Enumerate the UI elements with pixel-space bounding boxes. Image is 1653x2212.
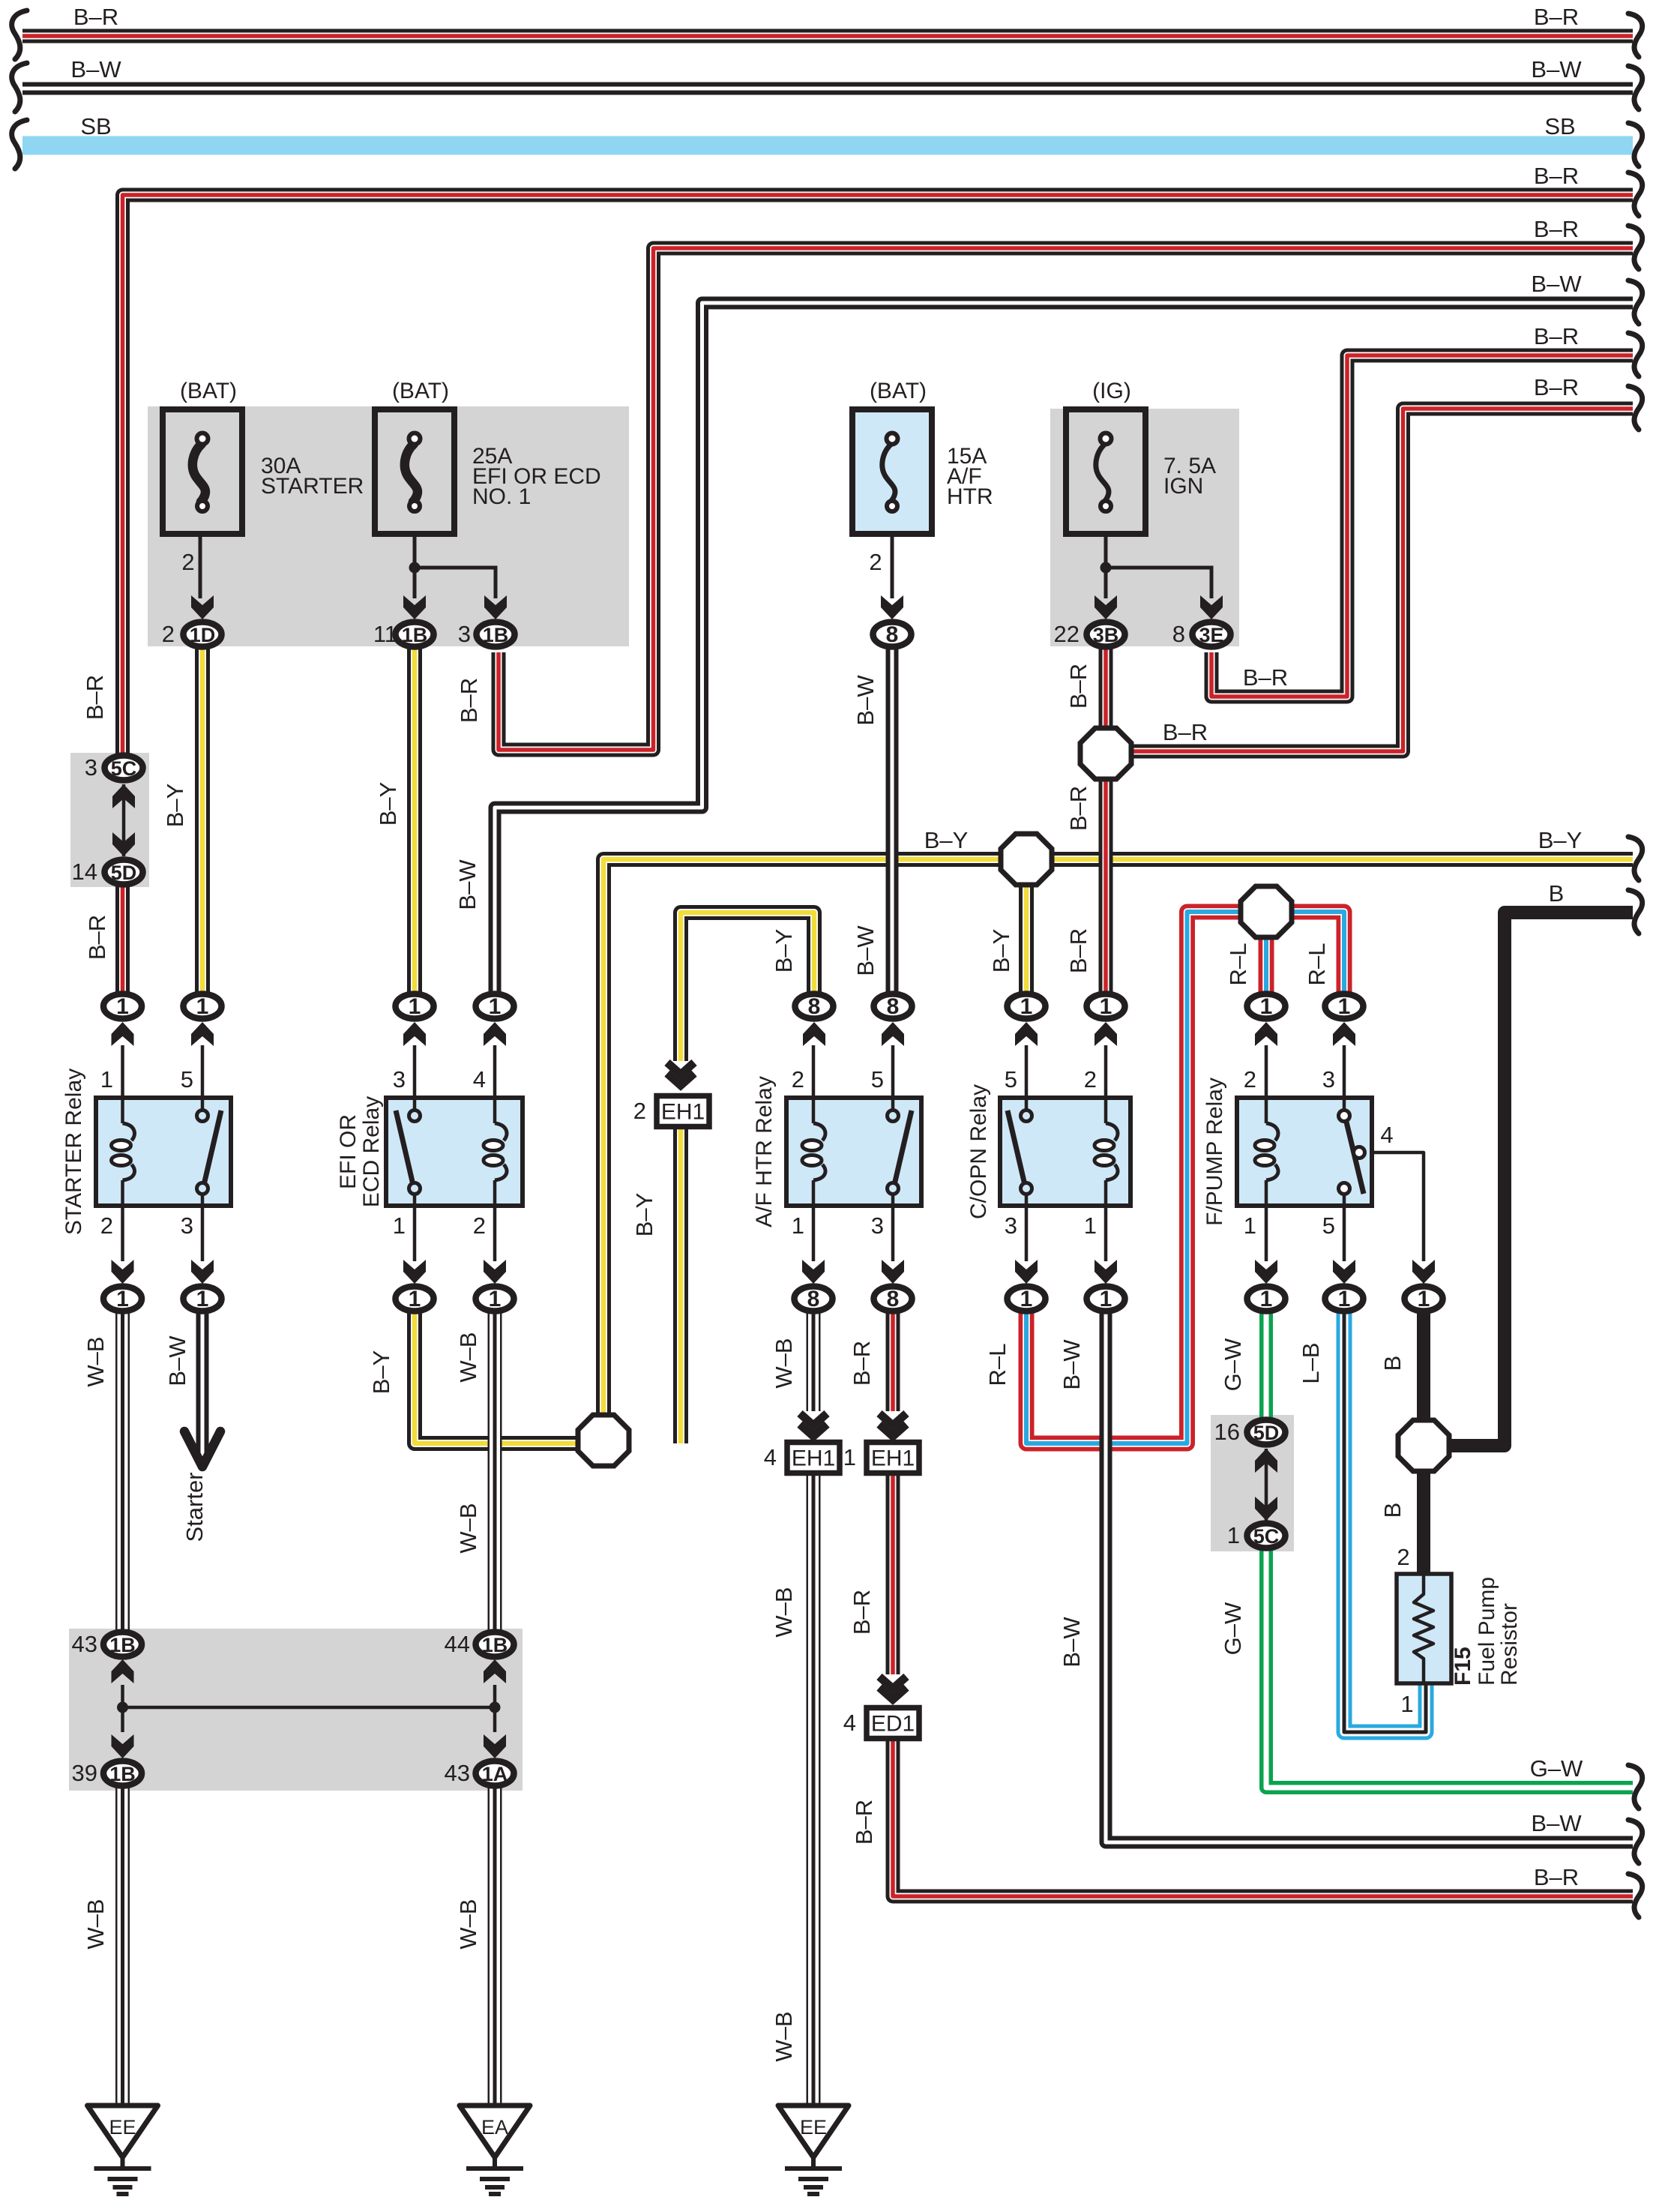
break symbol right B-R 3 bbox=[1628, 226, 1643, 269]
wire L-B F/PUMP relay pin5 to fuel pump resistor bbox=[1344, 1309, 1426, 1732]
svg-text:IGN: IGN bbox=[1163, 474, 1203, 499]
relay C/OPN label bbox=[966, 1084, 991, 1219]
connector 1B pin44 bbox=[476, 1632, 514, 1657]
svg-text:STARTER Relay: STARTER Relay bbox=[61, 1069, 86, 1235]
svg-text:B–W: B–W bbox=[1059, 1617, 1085, 1668]
svg-text:EFI OR: EFI OR bbox=[336, 1114, 361, 1189]
break symbol right B-R 4 bbox=[1628, 333, 1643, 376]
svg-text:B–W: B–W bbox=[852, 675, 879, 726]
wire B-Y fuse 25A to EFI relay pin3 bbox=[407, 646, 422, 994]
svg-text:W–B: W–B bbox=[455, 1899, 481, 1949]
double arrow into EH1 pin1 bbox=[879, 1413, 906, 1437]
svg-text:W–B: W–B bbox=[771, 1338, 797, 1388]
relay A/F HTR label bbox=[752, 1076, 777, 1227]
svg-text:B–R: B–R bbox=[851, 1800, 877, 1845]
svg-text:EH1: EH1 bbox=[792, 1446, 835, 1471]
break symbol right B-R 5 bbox=[1628, 386, 1643, 430]
svg-text:16: 16 bbox=[1214, 1419, 1240, 1445]
svg-text:1: 1 bbox=[1400, 1691, 1413, 1717]
svg-text:3: 3 bbox=[85, 754, 97, 781]
connector 8 below fuse 15A bbox=[873, 622, 912, 648]
svg-text:22: 22 bbox=[1054, 621, 1080, 647]
ground EE left bbox=[88, 2106, 158, 2194]
svg-text:1: 1 bbox=[100, 1066, 113, 1093]
svg-text:1: 1 bbox=[393, 1212, 406, 1239]
fuse 30A STARTER rating label bbox=[261, 454, 364, 499]
svg-text:B–R: B–R bbox=[1065, 786, 1092, 831]
connector 1 above C/OPN relay pin5 bbox=[1008, 994, 1046, 1020]
svg-text:1: 1 bbox=[1020, 1287, 1033, 1311]
svg-text:B: B bbox=[1379, 1356, 1406, 1371]
svg-text:3: 3 bbox=[871, 1212, 884, 1239]
wire W-B EFI relay pin2 to 1B bbox=[488, 1309, 502, 1632]
svg-text:2: 2 bbox=[633, 1098, 646, 1124]
wire fuse IGN to connectors 3B 3E bbox=[1106, 512, 1211, 598]
svg-text:1B: 1B bbox=[482, 1634, 508, 1656]
svg-text:B–R: B–R bbox=[849, 1590, 875, 1635]
break symbol right G-W bbox=[1628, 1765, 1643, 1809]
relay C/OPN bbox=[1000, 1098, 1130, 1206]
svg-text:1B: 1B bbox=[109, 1763, 136, 1785]
relay A/F HTR pin numbers bbox=[792, 1066, 884, 1239]
wire B F/PUMP relay pin4 to resistor bbox=[1417, 1309, 1430, 1574]
svg-text:B: B bbox=[1549, 880, 1565, 907]
svg-text:B–R: B–R bbox=[1534, 323, 1579, 349]
connector 1 below F/PUMP relay pin5 bbox=[1325, 1287, 1364, 1312]
arrow above starter relay pin1 bbox=[112, 1022, 134, 1046]
svg-text:B–R: B–R bbox=[1534, 1864, 1579, 1890]
connector 1 below A/F HTR relay pin1 bbox=[795, 1287, 833, 1312]
svg-text:B–Y: B–Y bbox=[368, 1350, 394, 1395]
connector 1 below A/F HTR relay pin3 bbox=[874, 1287, 912, 1312]
svg-text:5: 5 bbox=[871, 1066, 884, 1093]
break symbol right B-Y bbox=[1628, 837, 1643, 880]
wire fuse 15A to connector 8 bbox=[891, 512, 894, 598]
svg-text:SB: SB bbox=[1544, 113, 1575, 139]
svg-text:B–W: B–W bbox=[1531, 56, 1582, 82]
arrow into connector below C/OPN relay pin1 bbox=[1095, 1260, 1117, 1284]
svg-text:A/F HTR Relay: A/F HTR Relay bbox=[752, 1076, 777, 1227]
svg-text:1B: 1B bbox=[483, 624, 509, 646]
svg-text:43: 43 bbox=[72, 1631, 97, 1657]
svg-text:B–R: B–R bbox=[1534, 374, 1579, 400]
arrow into 1B pin44 bbox=[484, 1659, 506, 1683]
svg-text:ED1: ED1 bbox=[871, 1712, 915, 1737]
wire W-B EH1 to ground EE right bbox=[807, 1469, 821, 2106]
svg-text:8: 8 bbox=[887, 994, 900, 1019]
connector 5D right bbox=[1247, 1420, 1286, 1445]
svg-text:B–R: B–R bbox=[849, 1341, 875, 1386]
svg-text:3: 3 bbox=[181, 1212, 193, 1239]
svg-text:(IG): (IG) bbox=[1092, 379, 1131, 403]
svg-text:B–W: B–W bbox=[164, 1335, 190, 1386]
arrow into connector 1B-11 bbox=[403, 595, 426, 619]
svg-text:B–W: B–W bbox=[454, 859, 481, 910]
wire B-Y EH1 loop to A/F HTR relay pin2 bbox=[681, 913, 814, 1061]
svg-text:2: 2 bbox=[473, 1212, 486, 1239]
svg-text:8: 8 bbox=[886, 622, 899, 647]
wire R-L octagon to F/PUMP relay pin2 bbox=[1259, 912, 1274, 994]
svg-text:B–Y: B–Y bbox=[771, 929, 797, 973]
svg-text:B–R: B–R bbox=[1065, 664, 1092, 709]
svg-text:43: 43 bbox=[445, 1760, 470, 1786]
break symbol left B-R bbox=[12, 10, 27, 59]
svg-text:4: 4 bbox=[473, 1066, 486, 1093]
wire B-R fuse EFI to bus bbox=[499, 248, 1633, 750]
relay pin stub lines bbox=[123, 1045, 1345, 1261]
wire fuse 25A to connectors 1B bbox=[415, 512, 496, 598]
connector 1B pin11 bbox=[396, 622, 434, 647]
connector 1 below F/PUMP relay pin4 bbox=[1405, 1287, 1443, 1312]
svg-text:B–R: B–R bbox=[1163, 719, 1208, 745]
connector EH1 pin2 bbox=[633, 1096, 709, 1127]
svg-text:ECD Relay: ECD Relay bbox=[359, 1096, 384, 1207]
ground EA bbox=[460, 2106, 530, 2194]
connector 1 above C/OPN relay pin2 bbox=[1087, 994, 1125, 1020]
wire B-R ED1 to right edge bbox=[893, 1734, 1633, 1896]
svg-text:G–W: G–W bbox=[1220, 1338, 1246, 1391]
arrow into connector below F/PUMP relay pin5 bbox=[1333, 1260, 1355, 1284]
arrow above A/F HTR relay pin2 bbox=[803, 1022, 825, 1046]
wire B-W fuse 15A to A/F HTR relay pin5 bbox=[886, 646, 899, 994]
svg-text:R–L: R–L bbox=[1304, 943, 1330, 986]
svg-text:B–W: B–W bbox=[1531, 271, 1582, 297]
connector 1 below F/PUMP relay pin1 bbox=[1247, 1287, 1286, 1312]
arrow into 1B pin39 bbox=[112, 1734, 134, 1758]
junction octagon B-Y lower bbox=[578, 1415, 629, 1466]
wire W-B 1B to ground EE left bbox=[115, 1786, 130, 2106]
svg-text:8: 8 bbox=[808, 994, 821, 1019]
wire G-W F/PUMP relay pin1 to 5D bbox=[1259, 1309, 1273, 1420]
arrow into connector below F/PUMP relay pin1 bbox=[1255, 1260, 1277, 1284]
wire B-W bus to EFI relay pin4 bbox=[495, 303, 1633, 994]
arrow into connector below EFI relay pin1 bbox=[403, 1260, 426, 1284]
svg-text:(BAT): (BAT) bbox=[392, 379, 449, 403]
arrow into connector 3E bbox=[1200, 595, 1223, 619]
svg-text:5: 5 bbox=[1322, 1212, 1335, 1239]
svg-text:L–B: L–B bbox=[1298, 1342, 1324, 1383]
svg-text:1: 1 bbox=[1338, 1287, 1351, 1311]
svg-text:1: 1 bbox=[1260, 994, 1273, 1019]
svg-text:B–Y: B–Y bbox=[162, 784, 188, 828]
connector grey box 5C/5D left bbox=[70, 753, 149, 887]
svg-text:EH1: EH1 bbox=[661, 1100, 705, 1125]
wire 1B to 1B junction links bbox=[123, 1685, 496, 1732]
svg-text:1: 1 bbox=[1227, 1522, 1240, 1548]
arrow above C/OPN relay pin5 bbox=[1015, 1022, 1038, 1046]
arrow into 1A pin43 bbox=[484, 1734, 506, 1758]
svg-text:B–W: B–W bbox=[1531, 1810, 1582, 1836]
svg-text:2: 2 bbox=[869, 549, 882, 575]
arrow above A/F HTR relay pin5 bbox=[882, 1022, 904, 1046]
wire B-Y octagon to C/OPN relay pin5 bbox=[1019, 859, 1034, 994]
junction block grey box (IGN fuse) bbox=[1050, 409, 1239, 646]
wire R-L C/OPN relay pin3 loop to F/PUMP relay bbox=[1026, 912, 1344, 1443]
wire B-R bus to junction octagon bbox=[1106, 409, 1633, 751]
junction octagon B bbox=[1398, 1420, 1449, 1471]
connector 1B pin43 bbox=[103, 1632, 142, 1657]
junction dot right 1B bbox=[490, 1702, 501, 1713]
svg-text:W–B: W–B bbox=[771, 1587, 797, 1637]
relay STARTER bbox=[96, 1098, 231, 1206]
svg-text:3: 3 bbox=[1005, 1212, 1017, 1239]
svg-text:1: 1 bbox=[1084, 1212, 1097, 1239]
svg-text:B–Y: B–Y bbox=[1538, 827, 1583, 853]
junction dot below fuse IGN bbox=[1101, 562, 1112, 574]
svg-text:B–W: B–W bbox=[1059, 1339, 1085, 1390]
connector 1 above starter relay pin1 bbox=[103, 994, 142, 1020]
connector 1 below C/OPN relay pin3 bbox=[1008, 1287, 1046, 1312]
wire B-Y octagon to EH1 bbox=[673, 1122, 688, 1443]
arrow down into 5D bbox=[112, 832, 135, 856]
svg-text:1B: 1B bbox=[402, 624, 428, 646]
wire B-R bus to 3E bbox=[1211, 355, 1633, 697]
svg-text:B–R: B–R bbox=[73, 4, 118, 30]
connector 1B pin3 bbox=[477, 622, 515, 647]
svg-text:1: 1 bbox=[1100, 1287, 1112, 1311]
wire B-R fuse IGN 3B to C/OPN relay pin2 bbox=[1099, 646, 1113, 994]
svg-text:B–R: B–R bbox=[1065, 928, 1092, 973]
svg-text:39: 39 bbox=[72, 1760, 97, 1786]
wire B-Y EFI relay pin1 to octagon bbox=[415, 1309, 603, 1443]
arrow above F/PUMP relay pin3 bbox=[1333, 1022, 1355, 1046]
connector 1 below EFI relay pin1 bbox=[396, 1287, 434, 1312]
svg-text:B–Y: B–Y bbox=[375, 782, 401, 826]
connector 1 below EFI relay pin2 bbox=[476, 1287, 514, 1312]
wire W-B starter relay pin2 to 1B bbox=[115, 1309, 130, 1632]
arrow above EFI relay pin3 bbox=[403, 1022, 426, 1046]
fuse 30A STARTER bbox=[163, 409, 242, 534]
svg-text:R–L: R–L bbox=[984, 1344, 1011, 1386]
svg-text:1: 1 bbox=[489, 1287, 502, 1311]
arrow into connector 1D bbox=[191, 595, 214, 619]
svg-text:EH1: EH1 bbox=[871, 1446, 915, 1471]
fuse 25A EFI OR ECD NO.1 bbox=[375, 409, 454, 534]
relay STARTER label bbox=[61, 1069, 86, 1235]
svg-text:3: 3 bbox=[458, 621, 471, 647]
svg-text:8: 8 bbox=[887, 1287, 900, 1311]
svg-text:1: 1 bbox=[792, 1212, 804, 1239]
double arrow into EH1 pin4 bbox=[800, 1413, 827, 1437]
svg-text:B–W: B–W bbox=[70, 56, 121, 82]
wire SB bus top bbox=[22, 136, 1633, 155]
arrow into connector below starter relay pin3 bbox=[191, 1260, 214, 1284]
connector 5C left bbox=[105, 756, 143, 781]
svg-text:SB: SB bbox=[80, 113, 111, 139]
junction octagon R-L bbox=[1241, 886, 1292, 937]
svg-text:G–W: G–W bbox=[1220, 1602, 1246, 1655]
fuse 15A A/F HTR rating label bbox=[947, 444, 993, 509]
svg-text:B–R: B–R bbox=[82, 675, 108, 720]
svg-text:1: 1 bbox=[196, 994, 209, 1019]
connector grey box 5D/5C right bbox=[1211, 1415, 1294, 1551]
wire G-W 5C to right edge bbox=[1266, 1548, 1633, 1788]
arrow into 1B pin43 bbox=[112, 1659, 134, 1683]
connector EH1 pin1 bbox=[843, 1443, 919, 1473]
wire W-B 1A to ground EA bbox=[488, 1786, 502, 2106]
svg-text:B–R: B–R bbox=[1534, 163, 1579, 189]
relay C/OPN pin numbers bbox=[1005, 1066, 1097, 1239]
svg-text:W–B: W–B bbox=[82, 1899, 109, 1949]
svg-text:Resistor: Resistor bbox=[1497, 1603, 1522, 1686]
connector 1 above F/PUMP relay pin3 bbox=[1325, 994, 1364, 1020]
fuse 7.5A IGN rating label bbox=[1163, 454, 1216, 499]
svg-text:1: 1 bbox=[409, 994, 421, 1019]
connector 1 below C/OPN relay pin1 bbox=[1087, 1287, 1125, 1312]
break symbol right B-W 3 bbox=[1628, 1820, 1643, 1863]
svg-text:5: 5 bbox=[1005, 1066, 1017, 1093]
svg-text:W–B: W–B bbox=[455, 1332, 481, 1382]
break symbol right SB bbox=[1628, 123, 1643, 166]
svg-text:1: 1 bbox=[489, 994, 502, 1019]
double arrow into ED1 pin4 bbox=[879, 1677, 906, 1700]
wire B-R EH1 to ED1 bbox=[886, 1472, 900, 1674]
svg-text:EA: EA bbox=[481, 2116, 508, 2139]
svg-text:1A: 1A bbox=[482, 1763, 508, 1785]
wire B bus to octagon bbox=[1424, 913, 1633, 1446]
svg-text:3: 3 bbox=[393, 1066, 406, 1093]
svg-text:8: 8 bbox=[1172, 621, 1185, 647]
svg-text:W–B: W–B bbox=[771, 2011, 797, 2061]
svg-text:B–Y: B–Y bbox=[988, 929, 1014, 973]
junction octagon B-Y bus bbox=[1001, 834, 1052, 885]
connector 1 above EFI relay pin3 bbox=[396, 994, 434, 1020]
svg-text:8: 8 bbox=[807, 1287, 820, 1311]
arrow above starter relay pin5 bbox=[191, 1022, 214, 1046]
svg-text:1: 1 bbox=[196, 1287, 209, 1311]
arrow into connector below C/OPN relay pin3 bbox=[1015, 1260, 1038, 1284]
svg-text:5C: 5C bbox=[1253, 1525, 1280, 1548]
svg-text:14: 14 bbox=[72, 859, 97, 885]
svg-text:3B: 3B bbox=[1093, 624, 1119, 646]
svg-text:1D: 1D bbox=[190, 624, 216, 646]
wire B-R 5D to starter relay pin1 bbox=[115, 885, 130, 994]
svg-text:4: 4 bbox=[764, 1444, 777, 1470]
svg-text:B–Y: B–Y bbox=[631, 1193, 657, 1237]
arrow into connector below starter relay pin2 bbox=[112, 1260, 134, 1284]
svg-text:NO. 1: NO. 1 bbox=[472, 484, 531, 509]
svg-text:EE: EE bbox=[800, 2116, 827, 2139]
connector 1 above EFI relay pin4 bbox=[476, 994, 514, 1020]
connector 1 above A/F HTR relay pin2 bbox=[795, 994, 834, 1020]
relay A/F HTR bbox=[786, 1098, 921, 1206]
fuse 25A EFI OR ECD NO.1 rating label bbox=[472, 444, 601, 509]
wire B-W starter relay pin3 to starter bbox=[196, 1309, 209, 1462]
break symbol right B-W top bbox=[1628, 66, 1643, 109]
svg-text:HTR: HTR bbox=[947, 484, 993, 509]
double arrow into EH1 pin2 bbox=[667, 1063, 694, 1086]
svg-text:44: 44 bbox=[445, 1631, 470, 1657]
connector EH1 pin4 bbox=[764, 1443, 840, 1473]
svg-text:5D: 5D bbox=[1253, 1422, 1280, 1444]
connector 1 above A/F HTR relay pin5 bbox=[874, 994, 912, 1020]
connector 3E bbox=[1193, 622, 1231, 647]
wire B-R A/F HTR relay pin3 to EH1 bbox=[886, 1309, 900, 1411]
svg-text:4: 4 bbox=[843, 1710, 856, 1736]
svg-text:1: 1 bbox=[116, 994, 129, 1019]
svg-text:2: 2 bbox=[1084, 1066, 1097, 1093]
connector 1B pin39 bbox=[103, 1761, 142, 1786]
break symbol right B-R top bbox=[1628, 13, 1643, 57]
arrow above F/PUMP relay pin2 bbox=[1255, 1022, 1277, 1046]
fuse 7.5A IGN bbox=[1066, 409, 1145, 534]
arrow into connector below F/PUMP relay pin4 bbox=[1412, 1260, 1435, 1284]
svg-text:EE: EE bbox=[109, 2116, 136, 2139]
arrow into connector 1B-3 bbox=[484, 595, 507, 619]
break symbol left SB bbox=[12, 120, 27, 169]
fuse 15A A/F HTR bbox=[852, 409, 932, 534]
junction block grey box (fuses 30A/25A) bbox=[148, 406, 629, 646]
relay EFI OR ECD bbox=[386, 1098, 523, 1206]
svg-text:R–L: R–L bbox=[1225, 943, 1251, 986]
break symbol left B-W bbox=[12, 63, 27, 112]
svg-text:3E: 3E bbox=[1199, 624, 1223, 646]
arrow into connector below A/F HTR relay pin1 bbox=[802, 1260, 825, 1284]
wire B-W bus top bbox=[22, 82, 1633, 95]
svg-text:1: 1 bbox=[1100, 994, 1112, 1019]
svg-text:2: 2 bbox=[1244, 1066, 1256, 1093]
svg-text:B–R: B–R bbox=[1534, 4, 1579, 30]
arrow above EFI relay pin4 bbox=[484, 1022, 506, 1046]
svg-text:B–R: B–R bbox=[84, 915, 110, 960]
wire B-Y bus bbox=[603, 859, 1633, 1440]
wire 5C to 5D link left bbox=[122, 784, 126, 856]
connector ED1 pin4 bbox=[843, 1708, 919, 1739]
svg-text:3: 3 bbox=[1322, 1066, 1335, 1093]
connector 1 below starter relay pin2 bbox=[103, 1287, 142, 1312]
svg-text:4: 4 bbox=[1380, 1122, 1393, 1148]
svg-text:B–R: B–R bbox=[1534, 216, 1579, 242]
svg-text:(BAT): (BAT) bbox=[870, 379, 927, 403]
svg-text:2: 2 bbox=[162, 621, 175, 647]
svg-text:Starter: Starter bbox=[181, 1472, 208, 1542]
svg-text:W–B: W–B bbox=[455, 1503, 481, 1553]
connector 1D bbox=[184, 622, 222, 647]
connector 1A pin43 bbox=[476, 1761, 514, 1786]
wire B-W C/OPN relay pin1 to right edge bbox=[1106, 1309, 1633, 1842]
svg-text:1: 1 bbox=[116, 1287, 129, 1311]
svg-text:W–B: W–B bbox=[82, 1336, 109, 1386]
svg-text:G–W: G–W bbox=[1530, 1755, 1583, 1782]
arrow above C/OPN relay pin2 bbox=[1095, 1022, 1117, 1046]
relay F/PUMP pin numbers bbox=[1244, 1066, 1394, 1239]
svg-text:2: 2 bbox=[792, 1066, 804, 1093]
connector grey box 1B/1A bottom bbox=[69, 1629, 523, 1791]
arrow into connector below EFI relay pin2 bbox=[484, 1260, 506, 1284]
junction dot left 1B bbox=[117, 1702, 128, 1713]
svg-text:1: 1 bbox=[843, 1444, 856, 1470]
svg-text:2: 2 bbox=[100, 1212, 113, 1239]
svg-text:1: 1 bbox=[409, 1287, 421, 1311]
relay EFI OR ECD pin numbers bbox=[393, 1066, 486, 1239]
wire fuse 30A to connector 1D bbox=[199, 512, 202, 598]
wire W-B A/F HTR relay pin1 to EH1 bbox=[807, 1309, 821, 1411]
arrow down into 5C right bbox=[1255, 1497, 1277, 1521]
svg-text:B–W: B–W bbox=[852, 925, 879, 976]
connector 1 below starter relay pin3 bbox=[184, 1287, 222, 1312]
svg-text:B: B bbox=[1379, 1503, 1406, 1518]
svg-text:2: 2 bbox=[1397, 1544, 1409, 1570]
connector 1 above starter relay pin5 bbox=[184, 994, 222, 1020]
connector 5C right bbox=[1247, 1524, 1286, 1548]
svg-text:1: 1 bbox=[1244, 1212, 1256, 1239]
resistor F15 fuel pump bbox=[1397, 1574, 1451, 1683]
svg-text:1B: 1B bbox=[109, 1634, 136, 1656]
arrow into connector 3B bbox=[1095, 595, 1117, 619]
svg-text:STARTER: STARTER bbox=[261, 474, 364, 499]
break symbol right B bbox=[1628, 890, 1643, 934]
svg-text:1: 1 bbox=[1020, 994, 1033, 1019]
